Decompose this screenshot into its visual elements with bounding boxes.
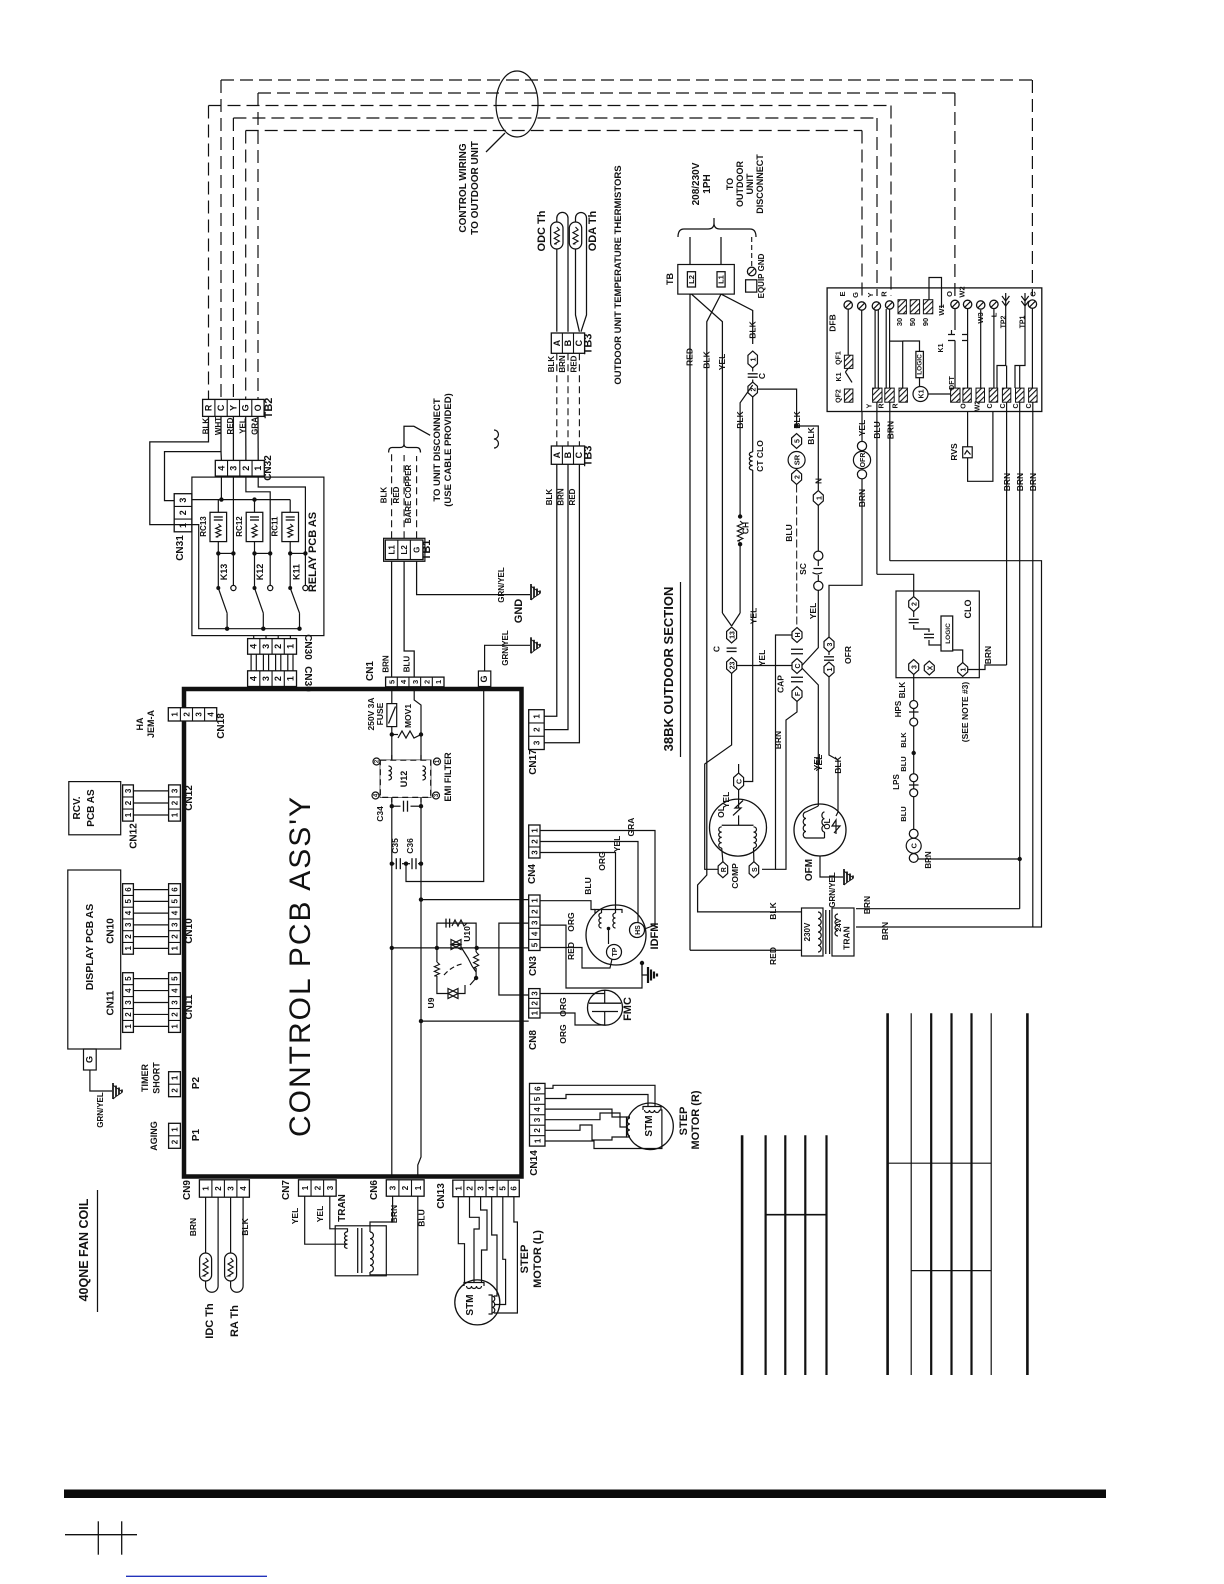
svg-text:STEP: STEP: [519, 1245, 531, 1274]
svg-text:AGING: AGING: [149, 1121, 159, 1151]
svg-text:1: 1: [171, 812, 180, 817]
svg-text:ORG: ORG: [558, 997, 568, 1017]
connector CN4 right edge: [529, 825, 540, 858]
svg-text:4: 4: [533, 1107, 542, 1112]
connector P1: [169, 1123, 181, 1148]
svg-text:3: 3: [171, 1000, 180, 1005]
svg-text:1: 1: [253, 466, 263, 471]
svg-text:5: 5: [124, 899, 133, 904]
svg-text:4: 4: [488, 1186, 497, 1191]
CLO plug X: [924, 661, 934, 675]
bus RC tops from CN32-4: [220, 476, 222, 500]
svg-text:GRN/YEL: GRN/YEL: [96, 1092, 105, 1128]
thermistor ODA Th: [576, 249, 580, 332]
svg-text:BLU: BLU: [872, 421, 882, 438]
svg-text:ODC Th: ODC Th: [536, 210, 548, 251]
IDFM hall sensor HS: [630, 923, 645, 938]
plug 1 on OFM line: [824, 662, 834, 677]
DFB screw R: [885, 301, 893, 309]
run capacitor CAP terminal H: [792, 628, 802, 643]
svg-text:5: 5: [530, 942, 539, 947]
svg-text:38BK OUTDOOR SECTION: 38BK OUTDOOR SECTION: [661, 587, 676, 752]
low pressure switch LPS: [910, 774, 918, 782]
capacitor C34: [392, 805, 401, 807]
svg-text:TRAN: TRAN: [842, 926, 852, 950]
wire OFR to OFM branch BRN: [829, 479, 862, 637]
svg-text:RELAY PCB AS: RELAY PCB AS: [307, 512, 319, 592]
svg-text:3: 3: [477, 1186, 486, 1191]
connector CN9: [199, 1180, 249, 1197]
svg-text:1: 1: [285, 676, 295, 681]
wires CN14 to STM R: [545, 1085, 655, 1106]
wires CN10: [133, 889, 168, 891]
svg-text:SR: SR: [793, 454, 802, 465]
svg-text:3: 3: [530, 850, 539, 855]
svg-text:P2: P2: [191, 1076, 202, 1089]
ground at display G: [112, 1083, 114, 1099]
svg-text:L1: L1: [388, 545, 397, 555]
svg-text:MOTOR (L): MOTOR (L): [532, 1230, 544, 1288]
svg-text:COMP: COMP: [730, 863, 740, 889]
svg-text:GRA: GRA: [626, 818, 636, 837]
svg-text:BLK: BLK: [240, 1217, 250, 1235]
relay contact K13: [218, 588, 227, 613]
svg-text:30: 30: [895, 318, 904, 326]
svg-text:BLK: BLK: [702, 350, 712, 368]
svg-text:A: A: [552, 339, 562, 346]
svg-text:3: 3: [912, 665, 919, 669]
svg-text:DISPLAY PCB AS: DISPLAY PCB AS: [84, 904, 96, 991]
svg-text:OUTDOOR: OUTDOOR: [735, 161, 745, 207]
svg-text:BLU: BLU: [784, 524, 794, 541]
svg-text:CT CLO: CT CLO: [755, 440, 765, 472]
pin 2 of U12: [373, 758, 380, 765]
svg-text:STM: STM: [465, 1294, 476, 1315]
footer bar: [64, 1490, 1106, 1499]
fan motor capacitor FMC: [588, 990, 623, 1025]
compressor contactor coil C: [909, 829, 918, 838]
svg-text:R: R: [721, 867, 728, 872]
svg-text:4: 4: [124, 910, 133, 915]
wire SC branch: [797, 426, 819, 490]
svg-text:1: 1: [751, 357, 758, 361]
svg-text:C36: C36: [405, 838, 415, 854]
wire control bus R (dashed): [209, 105, 892, 107]
wire CN32-2 G into relay board: [246, 476, 270, 585]
svg-text:1: 1: [171, 1127, 180, 1132]
triac U9: [436, 948, 438, 962]
connector CN32: [215, 460, 264, 476]
footer blue rule: [126, 1575, 267, 1577]
wire DFB out BRN 2: [1019, 402, 1021, 909]
supply brace: [678, 223, 756, 237]
svg-text:HS: HS: [635, 925, 642, 935]
svg-text:ORG: ORG: [558, 1024, 568, 1044]
svg-text:PCB AS: PCB AS: [86, 789, 97, 827]
DFB W3 wire: [980, 310, 982, 388]
svg-text:BLU: BLU: [899, 806, 908, 821]
svg-text:G: G: [241, 404, 251, 411]
svg-text:E: E: [838, 291, 847, 296]
svg-text:YEL: YEL: [315, 1206, 325, 1223]
wire CN1-5 BRN interior: [391, 687, 393, 704]
svg-text:K1: K1: [919, 389, 926, 398]
fuse (2): [752, 380, 754, 383]
svg-text:2: 2: [912, 602, 919, 606]
svg-text:2: 2: [530, 1001, 539, 1006]
connector CN11 display side: [123, 973, 134, 1033]
high pressure switch HPS: [910, 701, 918, 709]
svg-text:Y: Y: [228, 405, 238, 411]
svg-text:C: C: [757, 373, 767, 379]
wire RVS return: [968, 412, 993, 482]
DFB DFT pad: [954, 341, 956, 389]
table left vertical rules: [741, 1135, 744, 1375]
svg-text:5: 5: [499, 1186, 508, 1191]
svg-text:4: 4: [530, 931, 539, 936]
connector CN13: [453, 1180, 519, 1197]
wire control bus O (dashed): [258, 92, 955, 94]
svg-text:C: C: [1013, 403, 1020, 408]
svg-text:3: 3: [178, 498, 188, 503]
wire L1 to fuse column: [721, 294, 753, 344]
svg-text:3: 3: [530, 991, 539, 996]
wires to TB1 dashed BLK RED BARE COPPER: [391, 452, 393, 538]
svg-text:C: C: [1026, 403, 1033, 408]
svg-text:5: 5: [171, 976, 180, 981]
wire CAP F down BRN: [776, 702, 798, 870]
svg-text:BRN: BRN: [880, 922, 890, 940]
wire HPS to LPS BLK: [913, 726, 915, 774]
svg-text:L2: L2: [400, 545, 409, 555]
svg-text:2: 2: [171, 1088, 180, 1093]
svg-text:BLU: BLU: [403, 656, 412, 673]
wire fuse down v1: [391, 727, 393, 864]
wire CN8-3 to FMC ORG: [540, 993, 605, 995]
svg-text:TIMER: TIMER: [140, 1064, 150, 1092]
svg-text:1: 1: [178, 523, 188, 528]
connector CN3 right edge: [529, 895, 540, 951]
svg-text:4: 4: [249, 644, 259, 649]
svg-text:FUSE: FUSE: [375, 702, 385, 725]
wire CN8-1 to FMC ORG: [540, 1013, 605, 1025]
CAP terminal F: [792, 687, 802, 702]
svg-text:TO: TO: [725, 178, 735, 190]
svg-text:1: 1: [434, 680, 443, 684]
svg-text:BLK: BLK: [748, 320, 758, 338]
IDFM windings: [595, 910, 622, 914]
svg-text:1: 1: [171, 1075, 180, 1080]
OFM ground GRN/YEL: [820, 856, 843, 877]
capacitor C35: [392, 863, 395, 865]
svg-text:2: 2: [182, 712, 191, 717]
svg-text:6: 6: [533, 1086, 542, 1091]
svg-text:(USE CABLE PROVIDED): (USE CABLE PROVIDED): [443, 393, 454, 506]
DFB LOGIC block: [916, 351, 924, 377]
cable ellipse marker: [496, 71, 538, 137]
svg-text:TB1: TB1: [421, 540, 433, 561]
connector CN14 right edge: [530, 1083, 546, 1146]
svg-text:K12: K12: [255, 564, 265, 581]
svg-text:C: C: [910, 843, 919, 849]
svg-text:RVS: RVS: [949, 443, 959, 461]
svg-text:1: 1: [533, 1138, 542, 1143]
svg-text:TRAN: TRAN: [337, 1194, 348, 1222]
transformer TRAN 230V/24V: [802, 908, 824, 956]
svg-text:C: C: [987, 403, 994, 408]
wires TB3 to TB3 dashed BLK BRN RED: [556, 353, 558, 446]
svg-text:U10: U10: [462, 926, 472, 942]
svg-text:G: G: [479, 675, 489, 682]
svg-text:QF2: QF2: [835, 389, 842, 403]
connector CN17 right edge: [529, 710, 545, 750]
svg-text:2: 2: [273, 644, 283, 649]
start relay SR: [788, 452, 805, 469]
svg-text:BLU: BLU: [583, 877, 593, 894]
connector CN8 right edge: [529, 989, 540, 1018]
jumper W1: [929, 278, 942, 309]
svg-text:5: 5: [387, 680, 396, 684]
svg-text:1: 1: [816, 496, 823, 500]
svg-text:1: 1: [301, 1185, 310, 1190]
svg-text:BLK: BLK: [898, 682, 907, 699]
EMI filter U12 dashed box: [380, 760, 430, 797]
plug 23: [727, 658, 737, 674]
svg-text:U9: U9: [426, 997, 436, 1008]
svg-text:3: 3: [261, 644, 271, 649]
test point TP2: [1005, 293, 1007, 310]
pin G on top edge: [478, 671, 490, 687]
ground at IDFM: [642, 963, 647, 975]
DFB screw L: [990, 300, 998, 308]
wire CT CLO down to compressor C: [752, 470, 754, 779]
wires CN12 to CN12: [133, 790, 168, 792]
svg-text:BRN: BRN: [382, 655, 391, 673]
svg-text:RED: RED: [569, 355, 578, 372]
cable twist loops: [494, 430, 499, 448]
svg-text:RCV.: RCV.: [72, 796, 83, 819]
CAP plates 2: [791, 676, 803, 678]
svg-text:G: G: [85, 1056, 95, 1063]
svg-text:BRN: BRN: [556, 488, 565, 506]
svg-text:2: 2: [530, 909, 539, 914]
svg-text:2: 2: [214, 1186, 223, 1191]
svg-text:3: 3: [530, 920, 539, 925]
svg-text:4: 4: [171, 988, 180, 993]
svg-text:C: C: [795, 663, 802, 668]
svg-text:1: 1: [530, 898, 539, 903]
svg-text:R: R: [880, 291, 889, 297]
svg-text:13: 13: [730, 631, 737, 639]
svg-text:RC13: RC13: [199, 516, 208, 537]
svg-text:BLK: BLK: [202, 418, 211, 435]
svg-text:BLK: BLK: [547, 356, 556, 373]
svg-text:2: 2: [124, 800, 133, 805]
svg-text:1: 1: [530, 828, 539, 833]
wires supply to TB: [689, 237, 691, 265]
svg-text:BRN: BRN: [558, 355, 567, 373]
start contact SC: [814, 551, 823, 560]
wire DFB Y out BLU: [876, 402, 878, 574]
svg-text:1: 1: [171, 946, 180, 951]
svg-text:CN13: CN13: [436, 1183, 447, 1209]
svg-text:TB3: TB3: [583, 446, 595, 467]
svg-text:OFR: OFR: [843, 646, 853, 664]
plug contact C: [727, 647, 737, 649]
svg-text:BARE COPPER: BARE COPPER: [404, 464, 413, 523]
svg-text:GRN/YEL: GRN/YEL: [828, 872, 837, 908]
wire SC to CAP C diagonal: [802, 590, 818, 665]
wire plug1 to OFM BLK: [829, 677, 838, 760]
svg-text:SHORT: SHORT: [152, 1062, 162, 1094]
snubber RC13: [210, 512, 227, 541]
svg-text:4: 4: [249, 676, 259, 681]
defrost board DFB outline: [827, 288, 1042, 412]
svg-text:CN14: CN14: [529, 1150, 540, 1176]
CLO plug 1: [958, 663, 968, 677]
link RC13 bottom to Y contact: [218, 552, 233, 554]
DISPLAY PCB AS board: [68, 870, 121, 1049]
svg-text:3: 3: [261, 676, 271, 681]
wire TB2-C to CN31-3 / CN32-4 WHT: [165, 416, 222, 500]
svg-text:BLK: BLK: [899, 732, 908, 748]
wire CN32-1 O into relay board: [258, 476, 305, 585]
wire CN1-3 interior v2: [414, 687, 421, 1021]
CONTROL PCB ASS'Y board outline: [184, 689, 522, 1177]
wire branch fuse2 to SR column: [758, 389, 797, 426]
svg-text:3: 3: [195, 712, 204, 717]
indoor fan motor IDFM: [586, 905, 646, 965]
svg-text:6: 6: [171, 887, 180, 892]
wires TB3 to CN17 BLK BRN RED: [544, 464, 557, 716]
svg-text:3: 3: [411, 680, 420, 684]
svg-text:RC11: RC11: [271, 516, 280, 537]
svg-text:BRN: BRN: [188, 1218, 198, 1236]
svg-text:CN6: CN6: [369, 1180, 380, 1200]
compressor OL protector: [738, 790, 740, 808]
CLO plug 3: [909, 660, 919, 675]
wire TB1 L1 to CN1-5 BRN: [391, 561, 393, 677]
thermistor ODC Th: [556, 249, 558, 332]
svg-text:C34: C34: [375, 806, 385, 822]
svg-text:1PH: 1PH: [702, 174, 713, 193]
wire CLO 1 to BRN: [968, 665, 1007, 670]
svg-text:OL: OL: [716, 806, 726, 818]
svg-text:W2: W2: [958, 286, 967, 297]
svg-text:BLU: BLU: [899, 756, 908, 771]
svg-text:YEL: YEL: [808, 603, 818, 620]
svg-text:CONTROL PCB ASS'Y: CONTROL PCB ASS'Y: [284, 795, 317, 1137]
svg-text:2: 2: [422, 680, 431, 684]
optotriac U10 cluster: [437, 923, 476, 948]
wire C35/36 mid to G pin: [406, 687, 484, 882]
svg-text:YEL: YEL: [612, 836, 622, 853]
connector CN30 upper: [248, 639, 297, 655]
svg-text:LPS: LPS: [892, 774, 901, 790]
connector CN1 on top edge: [386, 677, 444, 687]
svg-text:1: 1: [170, 712, 179, 717]
wire CN7-1 to TRAN: [305, 1196, 348, 1244]
svg-text:2: 2: [795, 475, 802, 479]
DFB screw Y: [872, 302, 880, 310]
svg-text:TO UNIT DISCONNECT: TO UNIT DISCONNECT: [432, 398, 443, 501]
svg-text:5: 5: [124, 976, 133, 981]
DFB R bus to pad: [885, 309, 887, 388]
wire TB2-G to CN32-2: [245, 416, 247, 460]
wire v1 down to CN6-3: [391, 864, 393, 1176]
svg-text:CH: CH: [741, 522, 751, 534]
svg-text:1: 1: [124, 946, 133, 951]
svg-text:TB3: TB3: [583, 334, 595, 355]
svg-text:CN18: CN18: [216, 713, 227, 739]
svg-text:K11: K11: [292, 564, 302, 580]
svg-text:C: C: [1029, 291, 1038, 297]
svg-text:Y: Y: [866, 292, 875, 297]
svg-text:R: R: [892, 403, 899, 408]
wire v2 to CN3-1: [421, 899, 529, 901]
svg-text:O: O: [945, 291, 954, 297]
svg-text:RED: RED: [768, 947, 778, 965]
svg-text:CN4: CN4: [527, 864, 538, 884]
wire control bus G (dashed): [246, 130, 862, 132]
relay contact K12: [255, 588, 264, 613]
svg-text:U12: U12: [399, 771, 409, 788]
svg-text:QF1: QF1: [835, 351, 842, 365]
svg-text:GRN/YEL: GRN/YEL: [501, 630, 510, 666]
svg-text:C: C: [216, 404, 226, 411]
svg-text:4: 4: [124, 988, 133, 993]
wire CAP H stub to compressor S: [762, 635, 792, 869]
connector CN12 on RCV: [123, 785, 134, 821]
CLO caps: [913, 612, 915, 618]
svg-text:C: C: [1000, 403, 1007, 408]
RCV PCB AS board: [69, 782, 121, 835]
svg-text:HPS: HPS: [894, 700, 903, 717]
svg-text:BLK: BLK: [806, 426, 816, 444]
svg-text:4: 4: [171, 910, 180, 915]
svg-text:CN30: CN30: [302, 634, 313, 660]
compressor COMP circle: [710, 799, 767, 856]
svg-text:A: A: [552, 451, 562, 458]
table right vertical rules: [886, 1013, 889, 1375]
svg-text:Y: Y: [867, 403, 874, 408]
svg-text:3: 3: [533, 1117, 542, 1122]
wire TB1 G to GND GRN/YEL: [417, 561, 530, 594]
test point TP1: [1024, 293, 1026, 310]
svg-text:5: 5: [171, 899, 180, 904]
svg-text:CN9: CN9: [182, 1180, 193, 1200]
svg-text:YEL: YEL: [290, 1208, 300, 1225]
wire RED from TB L2: [689, 294, 691, 950]
svg-text:4: 4: [239, 1186, 248, 1191]
svg-text:BRN: BRN: [389, 1205, 399, 1223]
DFB K1 contact: [845, 368, 848, 372]
relay contact K11: [290, 588, 299, 613]
thermistor IDC Th: [205, 1197, 207, 1253]
svg-text:23: 23: [730, 662, 737, 670]
link RC11 bottom to O contact: [290, 552, 305, 554]
wire CAP C diagonal to OFM YEL: [802, 668, 818, 806]
svg-text:STEP: STEP: [678, 1107, 690, 1136]
wire TB2-R to CN31-1 BLK: [150, 416, 209, 524]
svg-text:GND: GND: [513, 599, 525, 624]
svg-text:FMC: FMC: [622, 997, 634, 1021]
svg-text:UNIT: UNIT: [745, 173, 755, 194]
connector CN31: [174, 494, 192, 532]
thermistor RA Th: [230, 1197, 232, 1253]
common bus from CN31-1: [174, 525, 299, 629]
svg-text:3: 3: [124, 922, 133, 927]
